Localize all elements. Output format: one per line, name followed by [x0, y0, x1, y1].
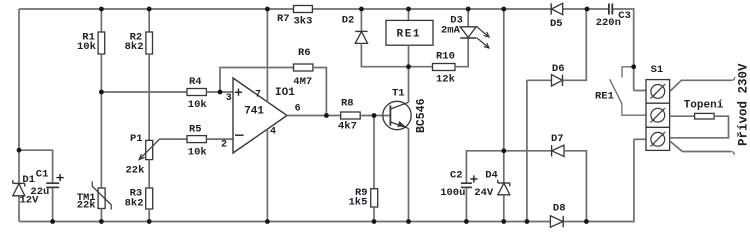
svg-text:RE1: RE1 [397, 28, 422, 40]
wire top rail down to 24V node [503, 9, 505, 151]
svg-text:R10: R10 [436, 51, 455, 63]
wire top rail segment D (C3 to right corner) [612, 9, 634, 91]
node junction node A [99, 90, 104, 95]
wire R5 to pin 2 [206, 138, 233, 140]
capacitor C2 [461, 183, 472, 187]
wire C1 to ground [52, 188, 54, 222]
svg-text:8k2: 8k2 [125, 41, 144, 53]
svg-text:22k: 22k [126, 165, 145, 177]
svg-text:2: 2 [221, 139, 227, 150]
resistor R9 [371, 189, 378, 207]
wire R10 to D3 cathode [455, 38, 468, 66]
node junction top rail / D2 [359, 7, 364, 12]
zener diode D4 [498, 180, 510, 195]
resistor R6 [294, 64, 313, 71]
LED D3 [460, 27, 489, 48]
node junction top rail / 24V riser [501, 7, 506, 12]
wire P1 wiper to R5 [160, 138, 187, 140]
svg-text:T1: T1 [392, 88, 405, 100]
wire R8 to T1 base [360, 115, 390, 117]
wire top rail to D2 [360, 9, 362, 31]
svg-text:10k: 10k [188, 99, 207, 111]
svg-text:220n: 220n [596, 17, 621, 29]
svg-text:22k: 22k [77, 200, 96, 212]
svg-text:10k: 10k [188, 147, 207, 159]
svg-text:4M7: 4M7 [293, 76, 312, 88]
wire RE1 coil to relay node [408, 45, 410, 66]
relay coil RE1 [386, 20, 433, 45]
wire D4 to ground [503, 195, 505, 222]
svg-text:RE1: RE1 [595, 91, 614, 103]
svg-text:100u: 100u [440, 187, 465, 199]
node junction top rail / D3 [466, 7, 471, 12]
wire T1 emitter to ground [408, 128, 410, 221]
diode D7 [552, 145, 564, 156]
svg-text:10k: 10k [77, 41, 96, 53]
wire base node to R9 [373, 116, 375, 189]
wire heater to terminal 3 loop [670, 116, 729, 138]
relay contact RE1 blade [610, 79, 646, 115]
node junction ground / D4 [501, 219, 506, 224]
wire R9 to ground [373, 207, 375, 222]
svg-text:D5: D5 [550, 18, 563, 30]
op-amp IO1 triangle [233, 78, 287, 153]
resistor R5 [187, 136, 206, 143]
wire node A to R4 [101, 91, 187, 93]
wire D6 to AC node up [563, 9, 587, 80]
wire pin 7 to top rail [266, 9, 268, 102]
wire D7 to AC node riser [564, 151, 586, 222]
wire switch node to terminal 1 [634, 90, 646, 92]
node junction ground / pin 4 [265, 219, 270, 224]
wire D6 branch down [526, 80, 528, 221]
svg-text:12V: 12V [20, 194, 40, 206]
node junction ground / C1 [50, 219, 55, 224]
wire R4 to pin 3 [206, 91, 233, 93]
resistor R4 [187, 89, 206, 96]
diode D5 [551, 3, 563, 14]
wire top rail segment B (R7 to D5) [312, 8, 551, 10]
node junction ground / C2 [464, 219, 469, 224]
svg-text:24V: 24V [474, 187, 494, 199]
wire left supply rail upper [18, 9, 20, 183]
wire terminal 3 to mains N [670, 141, 731, 151]
svg-text:R4: R4 [189, 76, 202, 88]
wire left supply rail lower [18, 196, 20, 222]
resistor R10 [433, 64, 456, 71]
svg-text:Přívod 230V: Přívod 230V [736, 63, 750, 146]
plus polarity mark of C2 [470, 175, 477, 182]
node junction top rail / R1 [99, 7, 104, 12]
capacitor C3 [609, 4, 612, 15]
wire top rail segment C (D5 to C3) [563, 8, 609, 10]
thermistor TM1 body [98, 188, 105, 209]
svg-text:BC546: BC546 [415, 98, 428, 133]
wire R3 to ground [148, 209, 150, 222]
node junction pin 3 / R6 [218, 90, 223, 95]
node junction base / R9 [372, 113, 377, 118]
wire TM1 to ground [100, 209, 102, 222]
wire top rail to R2 [148, 9, 150, 32]
node junction relay node [406, 64, 411, 69]
wire D2 to relay node [361, 43, 408, 66]
node junction ground / D6 riser [525, 219, 530, 224]
svg-text:6: 6 [295, 103, 301, 114]
op-amp plus input mark [235, 89, 242, 96]
wire C1 branch [19, 150, 53, 183]
thermistor TM1 strike [92, 181, 111, 209]
capacitor C1 [46, 183, 59, 187]
node junction switch node [631, 64, 636, 69]
wire top rail to RE1 coil [408, 9, 410, 20]
wire R6 to output [313, 68, 327, 116]
terminal block S1 [646, 80, 670, 151]
node junction top rail / R2 [147, 7, 152, 12]
svg-text:4k7: 4k7 [338, 121, 357, 133]
heater element Topeni [695, 113, 715, 119]
resistor R8 [341, 112, 361, 119]
diode D8 [550, 216, 563, 227]
wire top rail to D3 anode [467, 9, 469, 27]
svg-text:D1: D1 [22, 174, 35, 186]
diode D2 [355, 31, 367, 43]
wire GND bottom rail segment A [19, 221, 550, 223]
resistor R2 [146, 32, 153, 54]
diode D6 [552, 75, 563, 86]
relay contact RE1 fixed contact hook [622, 67, 634, 78]
wire pin 4 to ground [266, 129, 268, 221]
svg-text:P1: P1 [130, 133, 143, 145]
node junction 24V node [501, 148, 506, 153]
svg-text:1k5: 1k5 [349, 197, 368, 209]
plus polarity mark of C1 [57, 174, 64, 181]
node junction top rail / RE1 coil [406, 7, 411, 12]
resistor R7 [294, 6, 313, 13]
svg-text:C1: C1 [36, 169, 49, 181]
svg-text:S1: S1 [651, 64, 664, 76]
node junction ground rail / D7 riser [584, 219, 589, 224]
potentiometer P1 wiper arrow [139, 139, 160, 160]
svg-text:741: 741 [244, 105, 264, 117]
wire output pin 6 to R8 [287, 115, 341, 117]
svg-text:4: 4 [270, 127, 276, 138]
wire 24V node to D4 [503, 151, 505, 183]
svg-text:12k: 12k [436, 74, 455, 86]
node junction ground / R9 [372, 219, 377, 224]
wire terminal 2 to heater [670, 115, 695, 117]
wire 24V node to C2 [466, 151, 503, 183]
node junction left rail / C1 branch [17, 148, 22, 153]
node junction ground / TM1 [99, 219, 104, 224]
wire pin 3 junction up [220, 68, 294, 93]
wire relay node to R10 [409, 66, 433, 68]
wire R1 to node A [100, 54, 102, 92]
open end marker mains N [731, 152, 734, 155]
node junction top rail / D6 riser [585, 7, 590, 12]
svg-text:2mA: 2mA [441, 25, 461, 37]
svg-text:IO1: IO1 [275, 87, 295, 99]
svg-text:8k2: 8k2 [125, 197, 144, 209]
wire top rail to R1 [100, 9, 102, 32]
wire C2 to ground [465, 188, 467, 222]
wire R2 to P1 (crosses node A wire) [148, 54, 150, 140]
op-amp minus input mark [235, 134, 244, 136]
svg-text:D4: D4 [485, 169, 498, 181]
zener diode D1 [13, 180, 25, 196]
node junction ground / emitter [406, 219, 411, 224]
svg-text:7: 7 [255, 89, 261, 100]
svg-text:D7: D7 [551, 133, 564, 145]
resistor R1 [98, 32, 105, 54]
svg-text:R6: R6 [298, 47, 311, 59]
wire T1 collector to relay node [408, 67, 410, 103]
svg-text:D8: D8 [553, 203, 566, 215]
svg-text:3k3: 3k3 [294, 16, 313, 28]
wire P1 to R3 [148, 160, 150, 188]
resistor R3 [146, 188, 153, 209]
svg-text:R7: R7 [277, 13, 290, 25]
wire 24V node to D7 [504, 150, 552, 152]
wire GND bottom rail segment B (D8 to terminal riser) [563, 139, 634, 221]
open end marker mains L [732, 77, 735, 80]
svg-text:Topení: Topení [684, 99, 724, 111]
node junction top rail / pin 7 [265, 7, 270, 12]
svg-text:3: 3 [226, 93, 232, 104]
transistor T1 [383, 101, 411, 129]
node junction ground / R3 [147, 219, 152, 224]
wire terminal 1 to mains L [670, 80, 732, 91]
svg-text:D6: D6 [552, 63, 565, 75]
svg-text:C2: C2 [450, 169, 463, 181]
wire D6 left lead [527, 79, 552, 81]
wire node A to TM1 [100, 92, 102, 188]
potentiometer P1 body [146, 140, 153, 159]
svg-text:R5: R5 [189, 124, 202, 136]
wire terminal 3 stub [634, 138, 646, 140]
node junction output / R6 [324, 113, 329, 118]
wire +12V top rail segment A [19, 8, 294, 10]
svg-text:D2: D2 [342, 15, 355, 27]
svg-text:R8: R8 [341, 98, 354, 110]
